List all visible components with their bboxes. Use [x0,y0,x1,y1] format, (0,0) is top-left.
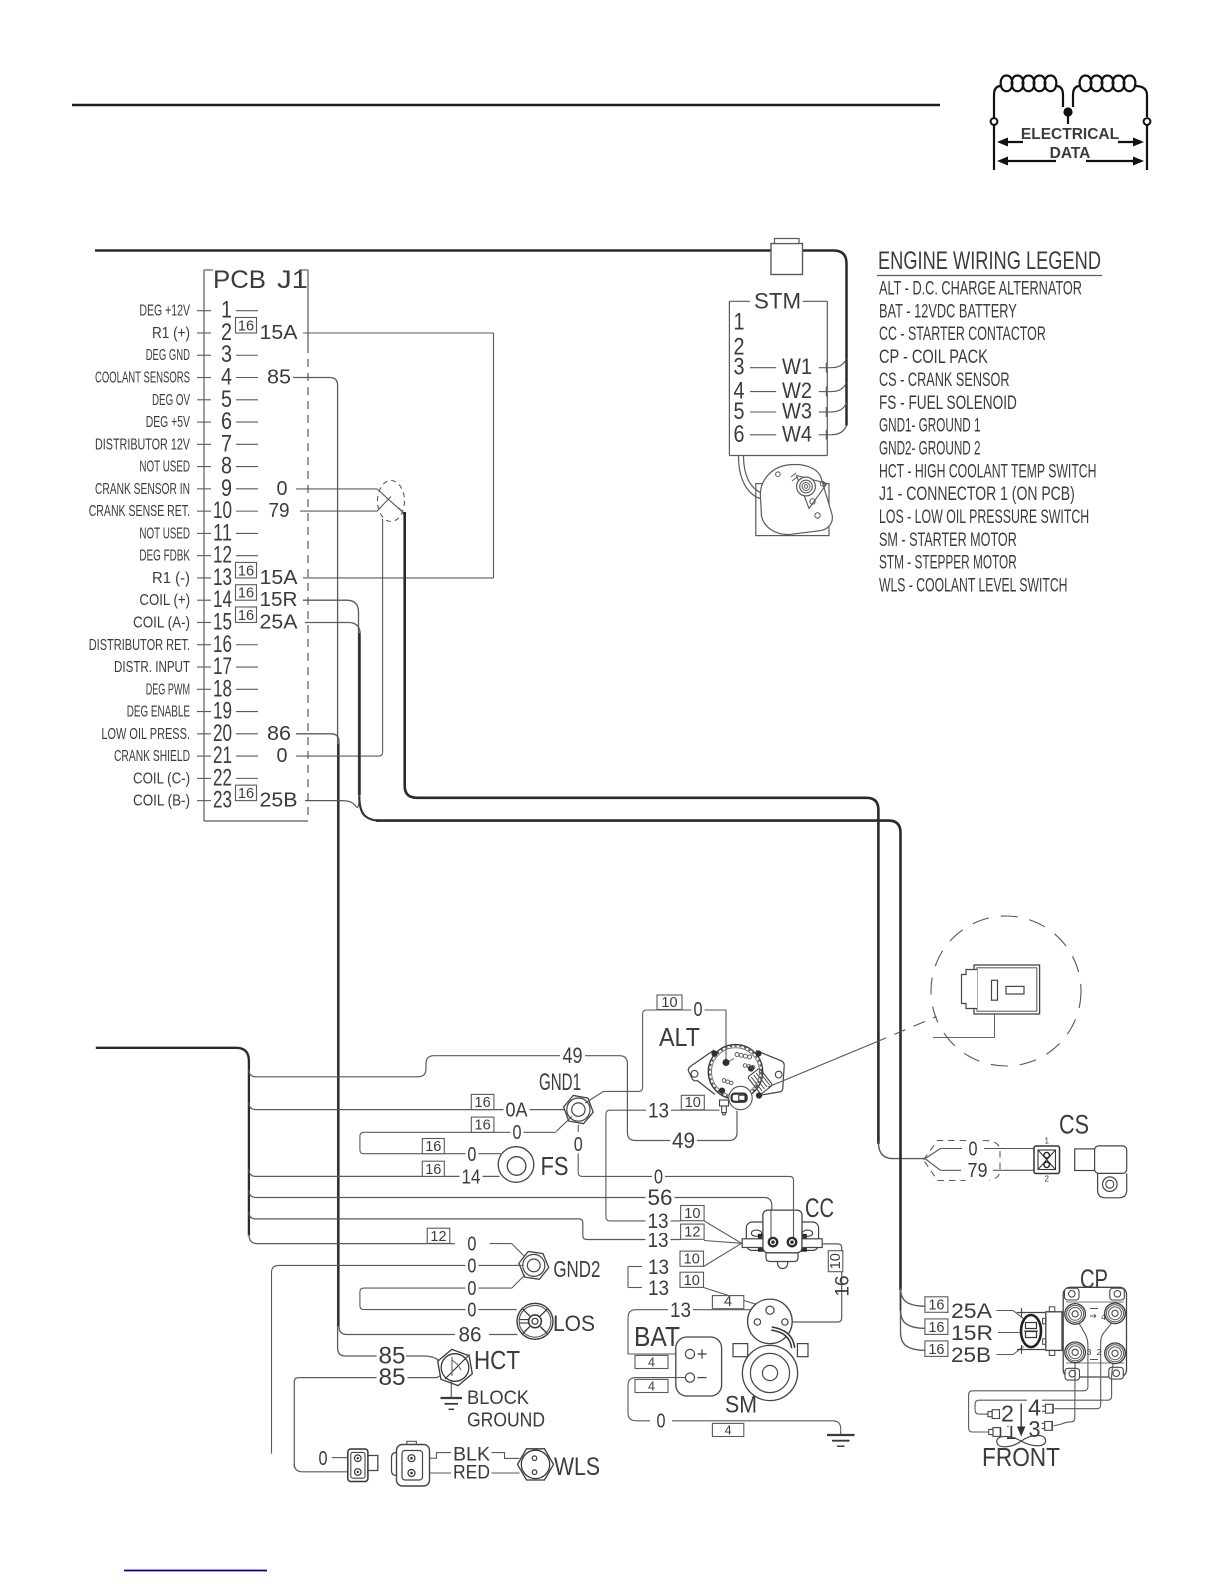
connector J1 pin 3 DEG GND [146,341,258,368]
svg-text:13: 13 [648,1277,669,1300]
svg-text:RED: RED [453,1461,490,1483]
svg-text:0: 0 [467,1255,476,1277]
svg-text:15A: 15A [260,567,299,589]
svg-text:DEG OV: DEG OV [152,392,190,409]
connector J1 pin 22 COIL (C-) [133,764,258,791]
wire 85 HCT to WLS connector [294,1364,447,1472]
svg-text:CS: CS [1059,1110,1089,1140]
starter contactor CC drawing [742,1209,822,1269]
svg-text:DATA: DATA [1050,145,1091,162]
wire 0 harness to GND2 top [427,1228,528,1260]
connector J1 pin 1 DEG +12V [139,297,258,324]
svg-text:13: 13 [648,1256,669,1279]
svg-text:25B: 25B [951,1344,991,1367]
connector J1 pin 20 LOW OIL PRESS. [101,720,291,747]
front direction arrow and label [982,1404,1060,1473]
svg-text:25B: 25B [260,790,298,812]
connector PCB J1 outline [204,266,308,821]
connector STM pin 2 [734,333,745,360]
svg-text:13: 13 [648,1210,669,1233]
wire 86 to LOS [457,1324,518,1347]
connector J1 pin 23 COIL (B-) [133,785,298,814]
spark plug wire 2 terminal [988,1401,1015,1427]
svg-text:0: 0 [694,999,703,1021]
svg-text:0: 0 [657,1411,666,1433]
electrical data section badge [991,76,1151,171]
footer blue rule [124,1570,267,1572]
svg-text:0: 0 [513,1122,522,1144]
svg-text:16: 16 [928,1320,944,1336]
fuel solenoid FS [498,1147,568,1183]
svg-text:16: 16 [238,563,254,579]
svg-text:W3: W3 [782,399,812,424]
svg-text:FRONT: FRONT [982,1442,1060,1472]
svg-text:CS - CRANK SENSOR: CS - CRANK SENSOR [879,370,1010,391]
block ground symbol [441,1382,546,1432]
svg-text:4: 4 [1101,1312,1106,1322]
svg-text:13: 13 [670,1299,691,1322]
svg-text:ALT: ALT [659,1022,700,1052]
svg-text:25A: 25A [951,1300,992,1323]
svg-text:25A: 25A [260,611,299,633]
svg-text:DEG +5V: DEG +5V [146,414,191,431]
connector J1 pin 7 DISTRIBUTOR 12V [95,430,258,457]
wire 13 from harness to CC [249,1212,742,1252]
svg-text:1: 1 [1044,1137,1049,1146]
svg-text:16: 16 [238,318,254,334]
wire top border rule [72,104,940,106]
svg-text:FS - FUEL SOLENOID: FS - FUEL SOLENOID [879,393,1017,414]
svg-text:GND2: GND2 [553,1256,600,1282]
wire 16 CC to SM solenoid [793,1244,854,1322]
cable harness top run to stepper motor [95,251,847,426]
svg-text:WLS - COOLANT LEVEL SWITCH: WLS - COOLANT LEVEL SWITCH [879,576,1068,597]
svg-text:PCB: PCB [213,266,266,294]
svg-text:BLOCK: BLOCK [467,1387,529,1409]
svg-text:CRANK SHIELD: CRANK SHIELD [114,748,190,765]
svg-text:CC: CC [805,1193,834,1223]
svg-text:HCT: HCT [474,1345,520,1375]
wire 0 to WLS connector [317,1448,348,1470]
svg-text:DISTR. INPUT: DISTR. INPUT [114,659,190,676]
connector J1 pin 12 DEG FDBK [139,542,258,569]
connector J1 pin 8 NOT USED [139,453,258,480]
svg-text:2: 2 [1001,1401,1014,1427]
connector J1 pin 13 R1 (-) [152,562,298,591]
svg-text:16: 16 [238,786,254,802]
svg-text:CRANK SENSE RET.: CRANK SENSE RET. [89,503,190,520]
wire 13 to SM solenoid battery stud [646,1272,766,1307]
svg-text:COIL (+): COIL (+) [139,592,190,609]
connector STM pin 5 [734,398,847,425]
svg-text:10: 10 [684,1252,700,1268]
svg-text:COOLANT SENSORS: COOLANT SENSORS [95,370,190,387]
cable 15R 25A 25B bundle from pins 14 15 23 to CP area [303,600,901,1332]
connector J1 pin 19 DEG ENABLE [127,698,258,725]
svg-text:GND1- GROUND 1: GND1- GROUND 1 [879,416,981,437]
svg-text:CP - COIL PACK: CP - COIL PACK [879,347,988,368]
svg-text:J1: J1 [277,266,308,294]
connector J1 pin 21 CRANK SHIELD [114,742,288,769]
connector J1 pin 17 DISTR. INPUT [114,653,258,680]
label CC [805,1193,834,1223]
svg-text:4: 4 [725,1423,732,1437]
svg-text:79: 79 [269,500,290,522]
coil pack CP drawing [969,1287,1127,1432]
connector STM stepper motor box [729,289,827,456]
svg-text:3: 3 [1087,1347,1092,1357]
svg-text:ENGINE WIRING LEGEND: ENGINE WIRING LEGEND [878,247,1101,275]
svg-text:10: 10 [684,1273,700,1289]
svg-text:DEG GND: DEG GND [146,347,190,364]
svg-text:6: 6 [734,421,745,448]
label CS [1059,1110,1089,1140]
svg-text:0: 0 [574,1134,583,1156]
svg-text:16: 16 [928,1298,944,1314]
svg-text:2: 2 [1044,1175,1049,1184]
wire BLK to WLS [430,1444,520,1466]
svg-text:0: 0 [277,478,288,500]
svg-text:12: 12 [684,1225,700,1241]
svg-text:FS: FS [541,1151,569,1181]
connector STM pin 6 [734,421,847,448]
crank sensor CS body [1075,1146,1127,1198]
wire crank shield 0 from symbol down to pin 21 [296,519,383,756]
svg-text:R1 (+): R1 (+) [152,325,190,342]
connector detail inside balloon [933,965,1040,1038]
label ALT [659,1022,700,1052]
svg-text:COIL (A-): COIL (A-) [133,614,190,631]
svg-text:15R: 15R [951,1322,993,1345]
connector STM pin 1 [734,309,745,336]
wire R1 15A loop pin2 to pin13 [303,333,494,578]
svg-text:STM - STEPPER MOTOR: STM - STEPPER MOTOR [879,553,1017,574]
svg-text:GND1: GND1 [539,1069,581,1096]
svg-text:W4: W4 [782,421,812,446]
svg-text:16: 16 [928,1342,944,1358]
svg-text:0: 0 [277,745,288,767]
svg-text:ALT - D.C. CHARGE ALTERNATOR: ALT - D.C. CHARGE ALTERNATOR [879,279,1082,300]
engine wiring legend text block [877,247,1102,597]
label CP [1080,1264,1108,1294]
svg-text:14: 14 [462,1167,481,1189]
connector J1 pin 11 NOT USED [139,519,258,546]
cable left harness feed and bundle [96,1048,455,1244]
svg-text:DISTRIBUTOR RET.: DISTRIBUTOR RET. [89,637,190,654]
svg-text:COIL (B-): COIL (B-) [133,793,190,810]
wire 85 and 86 bundle from pins 4 and 20 down to HCT and LOS [293,378,455,1357]
svg-text:16: 16 [238,586,254,602]
wire 0 from LOS to GND2 [360,1275,525,1322]
svg-text:NOT USED: NOT USED [139,525,190,542]
svg-text:W1: W1 [782,354,812,379]
connector J1 pin 14 COIL (+) [139,585,297,614]
svg-text:16: 16 [833,1275,854,1296]
cable crank sensor pair 0/79 to CS area [405,512,925,1159]
svg-text:COIL (C-): COIL (C-) [133,770,190,787]
connector J1 pin 5 DEG OV [152,386,258,413]
wire 25A to coil pack connector [901,1288,1024,1323]
svg-text:23: 23 [213,787,232,814]
svg-text:3: 3 [1029,1416,1041,1442]
svg-text:16: 16 [425,1162,441,1178]
svg-text:STM: STM [754,289,801,314]
spark plug wire 3 terminal [1028,1416,1053,1442]
svg-text:16: 16 [425,1139,441,1155]
wire 0 FS ground to GND1 [360,1116,572,1166]
svg-text:13: 13 [648,1100,669,1123]
svg-text:DISTRIBUTOR 12V: DISTRIBUTOR 12V [95,436,190,453]
svg-text:R1 (-): R1 (-) [152,570,190,587]
connector J1 pin 18 DEG PWM [146,675,258,702]
svg-text:HCT - HIGH COOLANT TEMP SWITCH: HCT - HIGH COOLANT TEMP SWITCH [879,461,1097,482]
svg-text:BAT - 12VDC BATTERY: BAT - 12VDC BATTERY [879,301,1017,322]
svg-text:LOS: LOS [553,1311,595,1336]
svg-text:DEG ENABLE: DEG ENABLE [127,704,190,721]
svg-text:49: 49 [672,1128,695,1153]
svg-text:DEG FDBK: DEG FDBK [139,548,190,565]
svg-text:85: 85 [267,367,291,389]
svg-text:LOW OIL PRESS.: LOW OIL PRESS. [101,726,190,743]
battery BAT drawing [634,1321,722,1396]
ground GND1 stud [539,1069,593,1124]
leader line ALT plug to balloon detail [768,1017,937,1088]
connector inline plug on top harness [771,239,803,275]
svg-text:ELECTRICAL: ELECTRICAL [1021,126,1119,143]
svg-text:86: 86 [267,723,291,745]
wire 15R to coil pack connector [901,1310,1020,1345]
svg-text:56: 56 [648,1185,673,1210]
svg-text:10: 10 [684,1206,700,1222]
svg-text:WLS: WLS [554,1453,600,1481]
svg-text:0: 0 [467,1144,476,1166]
wire 13 battery positive to SM [628,1294,751,1369]
wire 13 ALT output to CC [606,1095,742,1243]
svg-text:0A: 0A [506,1100,529,1122]
svg-text:0: 0 [654,1166,663,1188]
svg-text:4: 4 [648,1355,655,1369]
svg-text:0: 0 [467,1234,476,1256]
svg-text:GND2- GROUND 2: GND2- GROUND 2 [879,438,981,459]
cable crank sensor harness breakout 0 79 [924,1139,1034,1182]
wire 25B to coil pack connector [901,1332,1024,1367]
svg-text:GROUND: GROUND [467,1410,545,1432]
svg-text:BAT: BAT [634,1321,680,1352]
wire 56 from harness to CC coil [249,1185,772,1238]
svg-text:10: 10 [661,995,677,1011]
cable twisted pair shield symbol at pins 9-10 [296,481,405,522]
svg-text:16: 16 [475,1095,491,1111]
svg-text:12: 12 [430,1229,446,1245]
stepper motor drawing below STM box [739,456,833,536]
connector J1 pin 6 DEG +5V [146,408,258,435]
connector J1 pin 4 COOLANT SENSORS [95,364,291,391]
svg-text:16: 16 [475,1118,491,1134]
wire 14 from harness to FS [249,1161,500,1188]
connector STM pin 3 [734,354,847,381]
svg-text:86: 86 [459,1324,482,1347]
svg-text:LOS - LOW OIL PRESSURE SWITCH: LOS - LOW OIL PRESSURE SWITCH [879,507,1089,528]
connector coil pack mating half [1043,1307,1062,1356]
wire RED to WLS [430,1461,520,1483]
wire 85 pcb to HCT [377,1343,442,1370]
wire 0 from GND1 to CC coil terminal [572,1125,794,1238]
connector CS 2-pin plug [1034,1137,1060,1184]
connector J1 pin 16 DISTRIBUTOR RET. [89,631,258,658]
svg-text:CRANK SENSOR IN: CRANK SENSOR IN [95,481,190,498]
svg-text:0: 0 [319,1448,328,1470]
alternator ALT drawing [688,1044,784,1115]
svg-text:2: 2 [1097,1347,1102,1357]
ground GND2 stud [519,1252,601,1283]
coolant level switch WLS [518,1449,601,1481]
svg-text:85: 85 [379,1364,406,1391]
connector WLS pigtail 2-pin [392,1441,430,1486]
svg-text:NOT USED: NOT USED [139,459,190,476]
high coolant temp switch HCT [438,1345,520,1386]
wire 0 ALT to GND1 [585,995,726,1103]
spark plug wire 4 terminal [1027,1395,1053,1421]
svg-text:4: 4 [724,1294,732,1310]
svg-text:DEG +12V: DEG +12V [139,303,190,320]
connector J1 pin 15 COIL (A-) [133,607,298,636]
svg-text:0: 0 [969,1139,978,1161]
svg-text:SM - STARTER MOTOR: SM - STARTER MOTOR [879,530,1017,551]
wire 13 CC to battery bracket row5 [628,1243,742,1287]
svg-text:15R: 15R [260,589,298,611]
balloon detail circle [931,916,1081,1066]
svg-text:10: 10 [685,1095,701,1111]
connector harness side 2-pin to WLS [348,1449,378,1482]
svg-text:0: 0 [467,1300,476,1322]
starter motor SM drawing [725,1299,808,1418]
svg-text:49: 49 [563,1043,583,1068]
svg-text:CC - STARTER CONTACTOR: CC - STARTER CONTACTOR [879,324,1046,345]
svg-text:10: 10 [828,1253,844,1269]
svg-text:4: 4 [648,1379,655,1393]
wire 0 from WLS connector up to GND2 [272,1255,523,1453]
svg-text:15A: 15A [260,322,299,344]
connector J1 pin 10 CRANK SENSE RET. [89,497,290,524]
svg-text:SM: SM [725,1392,757,1419]
wire 49 from harness to ALT plug [249,1043,737,1153]
svg-text:J1 - CONNECTOR 1 (ON PCB): J1 - CONNECTOR 1 (ON PCB) [879,484,1075,505]
low oil pressure switch LOS [517,1303,595,1339]
connector J1 pin 2 R1 (+) [152,317,298,346]
connector coil pack harness plug [1017,1308,1045,1354]
svg-text:16: 16 [238,608,254,624]
svg-text:1: 1 [734,309,745,336]
wire 0A from harness to GND1 [249,1094,565,1121]
svg-text:79: 79 [968,1160,988,1182]
spark plug wire 1 terminal [989,1418,1018,1444]
connector J1 pin 9 CRANK SENSOR IN [95,475,288,502]
connector STM pin 4 [734,378,847,405]
svg-text:DEG PWM: DEG PWM [146,681,190,698]
wire 0 battery negative to engine ground [628,1378,855,1447]
svg-text:0: 0 [467,1278,476,1300]
